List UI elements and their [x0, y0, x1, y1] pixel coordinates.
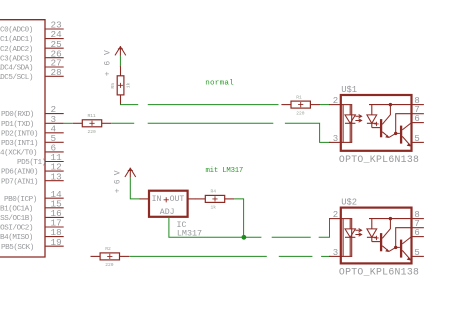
svg-text:PB4(MISO): PB4(MISO) [0, 234, 33, 242]
wire net A segment 3 (R1 to U$1 pin 2) [320, 104, 330, 106]
wire net B segment 2 [111, 122, 134, 124]
svg-text:PD1(TXD): PD1(TXD) [1, 121, 34, 129]
svg-text:PC1(ADC1): PC1(ADC1) [0, 36, 33, 44]
op-amp U$1 (optocoupler OPTO_KPL6N138) [329, 85, 424, 165]
svg-text:OPTO_KPL6N138: OPTO_KPL6N138 [339, 154, 419, 165]
svg-text:normal: normal [205, 80, 234, 88]
svg-text:PC4(ADC4/SDA): PC4(ADC4/SDA) [0, 65, 33, 73]
IC1 pin 3 PD1(TXD) [1, 114, 64, 129]
IC1 pin 12 PD6(AIN0) [1, 162, 64, 177]
svg-text:PC5(ADC5/SCL): PC5(ADC5/SCL) [0, 74, 33, 82]
resistor R11 (horizontal, on TXD line) [73, 113, 112, 135]
IC1 pin 15 PB1(OC1A) [0, 198, 64, 213]
svg-text:1k: 1k [126, 82, 132, 88]
svg-text:PB1(OC1A): PB1(OC1A) [0, 205, 33, 213]
resistor R1 (horizontal, before U$1 pin 2) [281, 94, 320, 116]
wire from +6V down to LM317 IN [130, 177, 140, 199]
IC1 pin 25 PC2(ADC2) [0, 39, 64, 54]
svg-text:13: 13 [51, 171, 62, 182]
svg-text:6: 6 [414, 228, 419, 238]
svg-text:R2: R2 [105, 246, 111, 252]
IC1 pin 6 PD4(XCK/T0) [0, 143, 64, 158]
wire net D segment 4 with corner up to U$2 pin 2 [319, 219, 331, 238]
IC1 pin 19 PB5(SCK) [1, 237, 64, 252]
svg-text:2: 2 [333, 96, 338, 106]
svg-text:5: 5 [414, 134, 419, 144]
wire net B from IC1 pin 3 (PD1 TXD) [64, 122, 73, 124]
svg-text:220: 220 [88, 129, 97, 135]
wire net B segment 3 [148, 122, 274, 124]
svg-text:+6V: +6V [104, 44, 113, 76]
IC1 pin 23 PC0(ADC0) [0, 20, 64, 35]
LM317 IN pin stub [140, 198, 149, 200]
svg-text:PC0(ADC0): PC0(ADC0) [0, 27, 33, 35]
wire net C segment 1 [129, 255, 267, 257]
supply +6V (middle, for LM317) [114, 166, 136, 193]
svg-text:PB0(ICP): PB0(ICP) [4, 196, 37, 204]
svg-text:U$2: U$2 [341, 197, 357, 207]
svg-text:1k: 1k [211, 205, 217, 211]
svg-text:OUT: OUT [170, 195, 185, 204]
IC1 pin 13 PD7(AIN1) [1, 171, 64, 186]
IC1 pin 24 PC1(ADC1) [0, 29, 64, 44]
wire net A segment 2 [148, 104, 279, 106]
resistor R4 (after LM317 OUT) [196, 189, 235, 211]
svg-text:PB3(MOSI/OC2): PB3(MOSI/OC2) [0, 225, 33, 233]
svg-text:28: 28 [51, 67, 62, 78]
wire net C segment 3 to U$2 pin 3 [321, 255, 330, 257]
svg-text:PC2(ADC2): PC2(ADC2) [0, 46, 33, 54]
IC1 pin 11 PD5(T1) [17, 152, 64, 167]
svg-text:+6V: +6V [114, 166, 123, 193]
IC1 pin 18 PB4(MISO) [0, 227, 64, 242]
wire from R4 down to ADJ net junction [234, 199, 243, 237]
svg-text:5: 5 [414, 248, 419, 258]
svg-text:R1: R1 [296, 94, 302, 100]
svg-text:PB5(SCK): PB5(SCK) [1, 244, 34, 252]
svg-text:PD5(T1): PD5(T1) [17, 159, 46, 167]
IC1 pin 5 PD3(INT1) [1, 133, 64, 148]
svg-text:PD2(INT0): PD2(INT0) [1, 130, 38, 138]
svg-text:PD7(AIN1): PD7(AIN1) [1, 178, 38, 186]
IC1 pin 14 PB0(ICP) [4, 189, 64, 204]
LM317 ADJ pin wire down [169, 217, 244, 238]
resistor R2 (horizontal, bottom left) [91, 246, 130, 268]
IC1 microcontroller (left, partially off-canvas) [0, 20, 45, 257]
svg-text:R11: R11 [88, 113, 97, 119]
wire net D segment 2 [244, 236, 262, 238]
IC1 pin 28 PC5(ADC5/SCL) [0, 67, 64, 82]
IC1 pin 16 PB2(SS/OC1B) [0, 208, 64, 223]
IC1 pin 17 PB3(MOSI/OC2) [0, 218, 64, 233]
resistor R5 (vertical, below +6V) [110, 56, 132, 105]
svg-text:OPTO_KPL6N138: OPTO_KPL6N138 [339, 266, 419, 277]
IC1 pin 26 PC3(ADC3) [0, 48, 64, 63]
svg-text:220: 220 [296, 110, 305, 116]
svg-text:U$1: U$1 [341, 85, 357, 95]
svg-text:3: 3 [333, 248, 338, 258]
svg-text:PB2(SS/OC1B): PB2(SS/OC1B) [0, 215, 33, 223]
svg-text:PC3(ADC3): PC3(ADC3) [0, 55, 33, 63]
svg-text:6: 6 [414, 114, 419, 124]
voltage regulator IC LM317 [149, 191, 188, 218]
LM317 OUT pin stub [188, 198, 196, 200]
svg-text:PD3(INT1): PD3(INT1) [1, 140, 38, 148]
svg-text:R5: R5 [110, 83, 116, 89]
svg-text:IN: IN [152, 195, 162, 204]
wire net B segment 4 with corner down to U$1 pin 3 [285, 123, 331, 142]
svg-text:R4: R4 [211, 189, 217, 195]
svg-text:2: 2 [333, 210, 338, 220]
svg-text:3: 3 [333, 134, 338, 144]
svg-text:mit LM317: mit LM317 [206, 167, 244, 175]
wire net C segment 2 [279, 255, 313, 257]
svg-text:220: 220 [105, 262, 114, 268]
IC1 pin 27 PC4(ADC4/SDA) [0, 58, 64, 73]
svg-text:ADJ: ADJ [160, 208, 175, 217]
IC1 pin 2 PD0(RXD) [1, 104, 64, 119]
wire net D segment 3 [272, 236, 311, 238]
supply +6V (top) [104, 44, 126, 76]
svg-text:19: 19 [51, 237, 62, 248]
op-amp U$2 (optocoupler OPTO_KPL6N138) [329, 197, 424, 277]
junction node (green dot) [242, 235, 247, 240]
wire net A segment 1 (from R5 to gap) [120, 104, 138, 106]
IC1 pin 4 PD2(INT0) [1, 123, 64, 138]
svg-text:PD4(XCK/T0): PD4(XCK/T0) [0, 150, 37, 158]
svg-text:PD0(RXD): PD0(RXD) [1, 111, 34, 119]
svg-text:PD6(AIN0): PD6(AIN0) [1, 169, 38, 177]
